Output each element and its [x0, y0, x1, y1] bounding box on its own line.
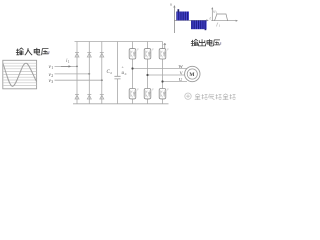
- svg-text:M: M: [189, 72, 194, 78]
- svg-text:1: 1: [68, 60, 70, 64]
- svg-text:3: 3: [51, 80, 53, 84]
- svg-text:d: d: [125, 72, 127, 76]
- svg-text:2: 2: [51, 74, 53, 78]
- svg-text:W: W: [179, 64, 184, 69]
- svg-text:d: d: [110, 71, 112, 75]
- svg-text:1: 1: [51, 66, 53, 70]
